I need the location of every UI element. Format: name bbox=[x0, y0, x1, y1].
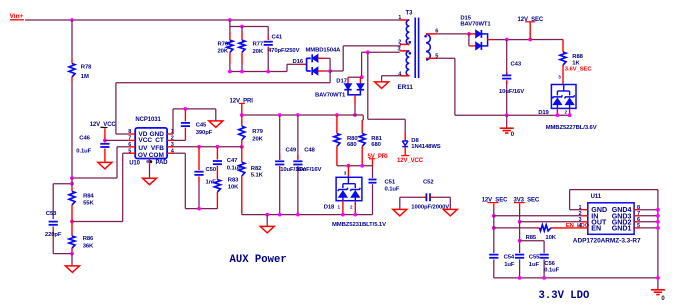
capacitor C54 bbox=[489, 254, 498, 256]
svg-text:5: 5 bbox=[637, 223, 640, 229]
node junction node B bbox=[70, 220, 74, 224]
resistor R85 bbox=[535, 227, 540, 229]
svg-text:ER11: ER11 bbox=[398, 84, 414, 91]
wire CT pin 2 to C45 bbox=[173, 139, 185, 141]
svg-text:MMBZ5227BL/3.6V: MMBZ5227BL/3.6V bbox=[546, 125, 597, 131]
wire VFB rail pin 3 bbox=[173, 146, 242, 148]
node junction C48 top bbox=[296, 113, 300, 117]
svg-text:CT: CT bbox=[155, 137, 164, 144]
svg-text:C47: C47 bbox=[227, 158, 238, 164]
svg-text:OV: OV bbox=[138, 152, 148, 159]
svg-text:AUX Power: AUX Power bbox=[230, 254, 287, 266]
svg-text:C56: C56 bbox=[544, 261, 555, 267]
wire C56 branch bbox=[520, 240, 545, 242]
svg-text:C53: C53 bbox=[46, 211, 57, 217]
wire D16 bottom anode to junction bbox=[318, 70, 325, 72]
wire IN line bbox=[494, 215, 582, 217]
svg-text:R82: R82 bbox=[251, 166, 262, 172]
capacitor C49 bbox=[279, 115, 281, 160]
svg-text:2: 2 bbox=[565, 110, 568, 115]
wire long vertical pin3 to D8 bbox=[367, 52, 369, 119]
capacitor C52 bbox=[400, 196, 422, 198]
wire U11 pin1 loop bbox=[570, 209, 582, 211]
svg-text:12V_VCC: 12V_VCC bbox=[397, 158, 424, 164]
wire EN line right bbox=[556, 227, 582, 229]
node junction gnd drop bbox=[265, 213, 269, 217]
resistor R79 bbox=[241, 115, 243, 126]
node junction C56 bottom bbox=[542, 276, 546, 280]
node junction 12V_SEC stub bbox=[528, 38, 532, 42]
svg-text:C45: C45 bbox=[196, 123, 207, 129]
svg-text:R88: R88 bbox=[572, 54, 583, 60]
resistor R88 bbox=[562, 40, 564, 53]
ground primary bottom rail bbox=[266, 215, 268, 227]
node junction Vin+/R78 bbox=[70, 18, 74, 22]
net label 12V_VCC (D8) bbox=[401, 155, 409, 157]
zener D18 MMBZ5231BLT/5.1V bbox=[347, 166, 349, 178]
wire T3 pin5 return bbox=[437, 57, 455, 59]
svg-text:U10: U10 bbox=[129, 160, 140, 166]
ground C52 left bbox=[399, 197, 401, 209]
svg-text:D18: D18 bbox=[324, 205, 335, 211]
ground C46 bbox=[98, 162, 112, 169]
node junction C49 bottom bbox=[278, 213, 282, 217]
wire secondary ground rail bbox=[455, 114, 570, 116]
diode D8 1N4148WS bbox=[402, 140, 408, 142]
svg-text:C52: C52 bbox=[423, 179, 434, 185]
wire 3V3_SEC vertical to C55 bbox=[519, 222, 521, 253]
T3 phase dot winding 2 bbox=[409, 52, 412, 55]
svg-text:R78: R78 bbox=[81, 64, 92, 70]
svg-text:MMBD1504A: MMBD1504A bbox=[306, 47, 342, 53]
svg-text:6: 6 bbox=[637, 217, 640, 223]
node junction C48 bottom bbox=[296, 213, 300, 217]
diode D16 MMBD1504A bbox=[306, 58, 308, 71]
node junction 3V3_SEC/OUT bbox=[518, 220, 522, 224]
node junction C46/VCC bbox=[103, 139, 107, 143]
svg-text:3: 3 bbox=[579, 217, 582, 223]
svg-text:PAD: PAD bbox=[156, 160, 169, 166]
resistor R77 bbox=[241, 27, 243, 32]
svg-text:C50: C50 bbox=[206, 167, 217, 173]
svg-text:3: 3 bbox=[558, 75, 561, 80]
diode D17 BAV70WT1 bbox=[348, 76, 361, 78]
wire D15 cathode to 12V_SEC rail bbox=[488, 39, 493, 41]
capacitor C53 bbox=[49, 221, 58, 223]
node junction C47 top bbox=[216, 145, 220, 149]
wire D16 top anode to junction bbox=[318, 57, 325, 59]
svg-text:C54: C54 bbox=[504, 255, 515, 261]
svg-text:GND1: GND1 bbox=[612, 224, 632, 232]
capacitor C56 bbox=[540, 254, 549, 256]
ground U10 pin1 net bbox=[215, 109, 217, 121]
capacitor C50 bbox=[198, 147, 200, 170]
svg-text:R76: R76 bbox=[218, 41, 229, 47]
wire 12V_PRI rail bbox=[242, 114, 363, 116]
resistor R76 bbox=[229, 27, 231, 32]
resistor R86 bbox=[71, 222, 73, 237]
wire Vin+ rail bbox=[25, 19, 401, 21]
resistor R82 bbox=[241, 147, 243, 162]
node junction C56 branch bbox=[518, 239, 522, 243]
svg-text:T3: T3 bbox=[406, 11, 414, 17]
svg-text:COM: COM bbox=[149, 152, 164, 159]
wire COM pin 4 loop bbox=[173, 152, 185, 154]
node junction C49 top bbox=[278, 113, 282, 117]
svg-text:ADP1720ARMZ-3.3-R7: ADP1720ARMZ-3.3-R7 bbox=[573, 238, 641, 245]
T3 core bbox=[414, 18, 416, 79]
ground divider bbox=[71, 254, 73, 266]
node junction pin3/long vertical bbox=[366, 50, 370, 54]
svg-text:1uF: 1uF bbox=[504, 262, 515, 268]
svg-text:D8: D8 bbox=[411, 138, 419, 144]
node junction 12V_SEC/IN bbox=[492, 214, 496, 218]
svg-text:680: 680 bbox=[347, 142, 357, 148]
wire EN line left bbox=[494, 227, 535, 229]
svg-text:0.1uF: 0.1uF bbox=[76, 148, 91, 154]
svg-text:1uF: 1uF bbox=[529, 262, 540, 268]
svg-text:R84: R84 bbox=[83, 194, 94, 200]
wire VCC pin 7 bbox=[105, 139, 128, 141]
capacitor C47 bbox=[216, 147, 218, 160]
svg-text:D17: D17 bbox=[336, 78, 347, 84]
capacitor C41 bbox=[267, 27, 269, 37]
capacitor C51 bbox=[372, 166, 374, 178]
svg-text:C49: C49 bbox=[286, 148, 297, 154]
svg-text:R83: R83 bbox=[228, 177, 239, 183]
capacitor C45 bbox=[184, 109, 186, 122]
wire 12V_SEC vertical to C54 bbox=[493, 216, 495, 253]
node junction R80 top bbox=[335, 113, 339, 117]
wire R76/R77 top sub-rail bbox=[229, 20, 231, 27]
node junction R79/R82/VFB bbox=[240, 145, 244, 149]
node junction D18 pin1 bbox=[341, 213, 345, 217]
svg-text:220pF: 220pF bbox=[45, 232, 62, 238]
wire OUT line bbox=[520, 221, 582, 223]
svg-text:VCC: VCC bbox=[138, 137, 152, 144]
svg-text:3: 3 bbox=[344, 171, 347, 176]
resistor R83 bbox=[214, 180, 220, 192]
wire 5V_PRI rail bbox=[337, 165, 373, 167]
svg-text:R85: R85 bbox=[526, 235, 537, 241]
resistor R80 bbox=[336, 115, 338, 134]
node junction bus/bottom rail bbox=[656, 276, 660, 280]
svg-text:BAV70WT1: BAV70WT1 bbox=[460, 21, 491, 27]
wire primary bottom rail bbox=[242, 214, 373, 216]
svg-text:C46: C46 bbox=[79, 135, 90, 141]
node junction C45 top bbox=[184, 107, 188, 111]
node junction C50 top bbox=[197, 145, 201, 149]
svg-text:C51: C51 bbox=[385, 179, 396, 185]
svg-text:10uF/16V: 10uF/16V bbox=[499, 89, 524, 95]
svg-text:390pF: 390pF bbox=[196, 130, 213, 136]
wire OV pin 5 to node B bbox=[123, 152, 129, 154]
svg-text:C43: C43 bbox=[511, 62, 522, 68]
T3 phase dot secondary bbox=[424, 35, 427, 38]
svg-text:10uF/16V: 10uF/16V bbox=[296, 167, 321, 173]
svg-text:9: 9 bbox=[146, 159, 149, 165]
svg-text:BAV70WT1: BAV70WT1 bbox=[315, 93, 346, 99]
T3 primary winding 1 bbox=[406, 20, 409, 44]
node junction EN line start bbox=[492, 226, 496, 230]
node junction sec gnd bbox=[505, 113, 509, 117]
svg-text:20K: 20K bbox=[252, 136, 263, 142]
svg-text:0.1uF: 0.1uF bbox=[227, 165, 242, 171]
svg-text:3.3V LDO: 3.3V LDO bbox=[539, 290, 590, 302]
svg-text:20K: 20K bbox=[218, 49, 229, 55]
IC U10 NCP1031 bbox=[135, 128, 167, 159]
wire C53 top branch bbox=[53, 183, 72, 185]
svg-text:C48: C48 bbox=[304, 148, 315, 154]
T3 primary winding 2 bbox=[406, 51, 409, 76]
wire LDO bottom rail bbox=[494, 277, 658, 279]
T3 phase dot winding 1 bbox=[409, 41, 412, 44]
svg-text:1N4148WS: 1N4148WS bbox=[411, 144, 440, 150]
svg-text:MMBZ5231BLT/5.1V: MMBZ5231BLT/5.1V bbox=[332, 222, 386, 228]
resistor R78 bbox=[71, 20, 73, 59]
svg-text:0.1uF: 0.1uF bbox=[385, 186, 400, 192]
svg-text:680: 680 bbox=[371, 142, 381, 148]
svg-text:NCP1031: NCP1031 bbox=[135, 117, 161, 123]
svg-text:8: 8 bbox=[637, 205, 640, 211]
wire C53 bottom branch bbox=[53, 253, 72, 255]
node junction D17/12V_PRI bbox=[353, 113, 357, 117]
wire junction to transformer pin 2 bbox=[330, 70, 343, 72]
svg-text:EN: EN bbox=[591, 224, 601, 232]
svg-text:R86: R86 bbox=[83, 236, 94, 242]
svg-text:U11: U11 bbox=[591, 194, 602, 200]
node junction 12V_PRI left bbox=[240, 113, 244, 117]
wire D17 cathode to 12V_PRI rail bbox=[354, 95, 356, 104]
wire junction down to VD pin 8 bbox=[329, 71, 331, 83]
ground C52 right bbox=[449, 197, 451, 209]
capacitor C55 bbox=[515, 254, 524, 256]
svg-text:55K: 55K bbox=[83, 200, 94, 206]
node junction node A bbox=[70, 176, 74, 180]
svg-text:2: 2 bbox=[350, 205, 353, 210]
svg-text:470pF/250V: 470pF/250V bbox=[268, 48, 300, 54]
node junction D18 pin2 bbox=[353, 213, 357, 217]
ground T3 pin 4 bbox=[375, 82, 389, 89]
svg-text:36K: 36K bbox=[83, 244, 94, 250]
svg-text:0.1uF: 0.1uF bbox=[544, 268, 559, 274]
node junction C55 bottom bbox=[518, 276, 522, 280]
wire GND pin 1 bbox=[172, 109, 174, 134]
ground U10 pad bbox=[143, 178, 157, 185]
node junction Vin+/R76 bbox=[228, 18, 232, 22]
svg-text:C41: C41 bbox=[272, 34, 283, 40]
svg-text:Vin+: Vin+ bbox=[10, 13, 24, 20]
svg-text:C55: C55 bbox=[529, 255, 540, 261]
T3 secondary winding bbox=[426, 34, 430, 60]
svg-text:20K: 20K bbox=[253, 49, 264, 55]
svg-text:R77: R77 bbox=[253, 41, 264, 47]
svg-text:5.1K: 5.1K bbox=[251, 173, 264, 179]
capacitor C48 bbox=[297, 115, 299, 160]
node junction C50 bottom bbox=[197, 207, 201, 211]
svg-text:3.6V_SEC: 3.6V_SEC bbox=[565, 66, 593, 72]
capacitor C43 bbox=[506, 40, 508, 72]
svg-text:10K: 10K bbox=[545, 235, 556, 241]
capacitor C46 bbox=[104, 140, 106, 142]
svg-text:1: 1 bbox=[338, 205, 341, 210]
wire UV pin 6 to node A bbox=[117, 146, 128, 148]
node junction C43 top bbox=[505, 38, 509, 42]
svg-text:D16: D16 bbox=[293, 59, 304, 65]
wire T3 pin 4 to ground bbox=[382, 75, 400, 77]
wire U11 right bus bbox=[657, 210, 659, 290]
svg-text:1M: 1M bbox=[81, 74, 89, 80]
U10 pin stubs bbox=[128, 133, 135, 135]
ground LDO 0 bbox=[651, 289, 665, 291]
node junction D16/VD/pin2 bbox=[328, 69, 332, 73]
resistor R81 bbox=[361, 120, 363, 134]
ground secondary 0 bbox=[506, 115, 508, 127]
wire pin3 drop to D17 bbox=[361, 52, 363, 77]
wire T3 pin 3 net bbox=[362, 51, 400, 53]
svg-text:10K: 10K bbox=[228, 184, 239, 190]
U11 pin stubs bbox=[582, 209, 588, 211]
svg-text:R79: R79 bbox=[252, 129, 263, 135]
wire R76/R77/C41 bottom rail bbox=[230, 71, 287, 73]
resistor R84 bbox=[71, 178, 73, 187]
